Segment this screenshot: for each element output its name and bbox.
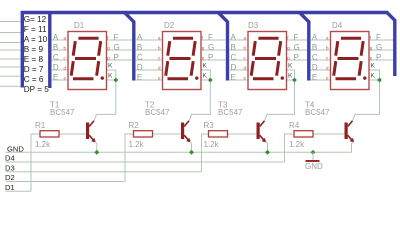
bus: top horizontal segment net A-G,DP: [22, 13, 388, 88]
svg-text:K: K: [371, 72, 376, 79]
wire net G from MCU: [0, 21, 21, 23]
segment g of D2: [170, 57, 191, 60]
decimal point of D2: [195, 76, 198, 79]
ground symbol bar: [306, 160, 320, 162]
transistor T2 emitter lead: [184, 135, 189, 141]
wire net D3 rail: [6, 171, 202, 173]
wire D1 pin K1 to cathode node: [107, 70, 116, 80]
svg-text:1.2k: 1.2k: [129, 140, 145, 149]
wire net P from D2 pin p: [201, 59, 226, 61]
transistor stage T1: [31, 78, 118, 192]
wire D3 pin K2 to cathode node: [287, 79, 295, 81]
junction cathode node: [113, 78, 118, 83]
segment b of D1: [99, 41, 101, 56]
bus vertical drop at x=134: [125, 13, 134, 81]
svg-text:D: D: [312, 63, 318, 72]
transistor T2 collector lead: [184, 121, 189, 127]
wire net F from D4 pin f: [369, 39, 393, 41]
svg-text:1.2k: 1.2k: [204, 140, 220, 149]
segment d of D1: [73, 77, 94, 80]
wire net P from D1 pin p: [107, 59, 133, 61]
wire net G from D3 pin g: [287, 49, 308, 51]
wire net DP from MCU: [0, 85, 21, 87]
wire R3 to T3 base: [228, 133, 257, 135]
svg-text:D3: D3: [248, 21, 259, 30]
wire D4 pin K1 to cathode node: [369, 70, 380, 80]
segment f of D3: [253, 41, 255, 56]
svg-text:B = 9: B = 9: [24, 45, 44, 54]
svg-text:G: G: [376, 43, 382, 52]
wire net P from D4 pin p: [369, 59, 393, 61]
wire net G from D1 pin g: [107, 49, 133, 51]
svg-text:G: G: [114, 43, 120, 52]
wire T2 emitter to GND rail: [190, 142, 192, 153]
svg-text:A: A: [53, 33, 59, 42]
svg-text:D3: D3: [5, 163, 15, 172]
wire net E to D2 pin e: [136, 79, 163, 81]
transistor T4 collector lead: [348, 121, 353, 127]
svg-text:BC547: BC547: [50, 108, 75, 117]
svg-text:BC547: BC547: [218, 108, 243, 117]
svg-text:C: C: [53, 53, 59, 62]
svg-text:P: P: [208, 53, 213, 62]
svg-text:B: B: [137, 43, 142, 52]
svg-text:K: K: [108, 62, 113, 69]
svg-text:C: C: [231, 53, 237, 62]
wire net to R1 from rail: [31, 134, 40, 191]
wire net E from MCU: [0, 58, 21, 60]
transistor T2 emitter arrow: [186, 138, 191, 143]
wire D3 pin K1 to cathode node: [287, 70, 295, 80]
wire T4 emitter to GND rail: [352, 142, 354, 153]
segment c of D1: [97, 61, 99, 76]
svg-text:F: F: [376, 33, 381, 42]
transistor T4 emitter arrow: [350, 138, 355, 143]
ground symbol stub wire: [312, 152, 314, 160]
resistor R4 body: [294, 131, 313, 137]
svg-text:E = 8: E = 8: [24, 55, 44, 64]
7-segment display D1: [52, 21, 132, 90]
transistor stage T2: [125, 78, 213, 182]
transistor T1 collector lead: [89, 121, 94, 127]
wire net F from D3 pin f: [287, 39, 308, 41]
wire net F from D2 pin f: [201, 39, 226, 41]
svg-text:D: D: [53, 63, 59, 72]
wire net P from D3 pin p: [287, 59, 308, 61]
transistor T4 base bar: [345, 123, 348, 140]
wire R2 to T2 base: [153, 133, 182, 135]
svg-text:GND: GND: [7, 145, 24, 154]
wire net to R4 from rail: [285, 134, 295, 162]
bus right end drop: [387, 13, 395, 77]
svg-text:B: B: [231, 43, 236, 52]
junction cathode node: [292, 78, 297, 83]
wire T2 collector to display cathode: [189, 80, 210, 121]
segment e of D2: [166, 61, 168, 76]
wire net C to D4 pin c: [311, 59, 331, 61]
svg-text:K: K: [288, 62, 293, 69]
svg-text:K: K: [203, 72, 208, 79]
wire net D2 rail: [6, 181, 126, 183]
wire net D to D2 pin d: [136, 69, 163, 71]
svg-text:K: K: [108, 72, 113, 79]
segment c of D2: [191, 61, 193, 76]
svg-text:K: K: [288, 72, 293, 79]
junction emitter-GND: [94, 150, 99, 155]
svg-text:R4: R4: [289, 121, 300, 130]
segment g of D4: [338, 57, 359, 60]
svg-text:R3: R3: [204, 121, 215, 130]
wire net F from D1 pin f: [107, 39, 133, 41]
wire net A to D3 pin a: [229, 39, 248, 41]
segment b of D4: [361, 41, 363, 56]
wire net B to D3 pin b: [229, 49, 248, 51]
svg-text:A: A: [312, 33, 318, 42]
transistor T4 emitter lead: [348, 135, 353, 141]
svg-text:C: C: [137, 53, 143, 62]
svg-text:E: E: [231, 73, 236, 82]
wire net D to D4 pin d: [311, 69, 331, 71]
segment f of D2: [168, 41, 170, 56]
svg-text:E: E: [312, 73, 317, 82]
transistor T1 emitter arrow: [91, 138, 96, 143]
wire T4 collector to display cathode: [353, 80, 380, 121]
wire D2 pin K2 to cathode node: [201, 79, 210, 81]
junction emitter-GND: [265, 150, 270, 155]
wire D2 pin K1 to cathode node: [201, 70, 210, 80]
bus vertical drop at x=228: [218, 13, 227, 81]
transistor T3 collector lead: [260, 121, 265, 127]
display D2 body outline: [163, 32, 202, 90]
decimal point of D4: [363, 76, 366, 79]
7-segment display D2: [136, 21, 226, 90]
7-segment display D4: [311, 21, 393, 90]
svg-text:D = 7: D = 7: [24, 65, 44, 74]
transistor T2 base bar: [181, 123, 184, 140]
transistor T3 emitter lead: [260, 135, 265, 141]
svg-text:D1: D1: [5, 183, 15, 192]
svg-text:F = 11: F = 11: [24, 25, 47, 34]
svg-text:A: A: [137, 33, 143, 42]
svg-text:1.2k: 1.2k: [35, 140, 51, 149]
wire T1 collector to display cathode: [94, 80, 116, 121]
segment c of D3: [277, 61, 279, 76]
junction GND rail to ground symbol: [311, 150, 316, 155]
transistor T1 emitter lead: [89, 135, 94, 141]
svg-text:F: F: [208, 33, 213, 42]
svg-text:E: E: [137, 73, 142, 82]
svg-text:1.2k: 1.2k: [289, 140, 305, 149]
segment g of D1: [75, 57, 96, 60]
wire net GND rail: [6, 151, 352, 153]
svg-text:C: C: [312, 53, 318, 62]
wire T3 emitter to GND rail: [266, 142, 268, 153]
wire net G from D2 pin g: [201, 49, 226, 51]
wire net to R3 from rail: [202, 134, 209, 172]
transistor stage T3: [202, 78, 297, 172]
wire net C to D1 pin c: [52, 59, 68, 61]
segment d of D4: [336, 77, 357, 80]
wire net D to D3 pin d: [229, 69, 248, 71]
wire net A to D2 pin a: [136, 39, 163, 41]
resistor R1 body: [40, 131, 59, 137]
wire net F from MCU: [0, 32, 21, 34]
svg-text:A = 10: A = 10: [24, 35, 48, 44]
resistor R2 body: [134, 131, 153, 137]
segment a of D2: [173, 37, 193, 40]
display D4 body outline: [331, 32, 370, 90]
segment e of D1: [71, 61, 73, 76]
wire net C to D3 pin c: [229, 59, 248, 61]
svg-text:K: K: [203, 62, 208, 69]
svg-text:G: G: [294, 43, 300, 52]
svg-text:R2: R2: [129, 121, 140, 130]
segment e of D3: [251, 61, 253, 76]
svg-text:BC547: BC547: [305, 108, 330, 117]
wire net A from MCU: [0, 42, 21, 44]
svg-text:A: A: [231, 33, 237, 42]
svg-text:D4: D4: [332, 21, 343, 30]
display D3 body outline: [248, 32, 287, 90]
segment b of D2: [193, 41, 195, 56]
segment d of D3: [253, 77, 274, 80]
wire net D to D1 pin d: [52, 69, 68, 71]
wire net E to D4 pin e: [311, 79, 331, 81]
transistor stage T4: [285, 78, 382, 162]
wire net B to D1 pin b: [52, 49, 68, 51]
svg-text:B: B: [312, 43, 317, 52]
wire net E to D1 pin e: [52, 79, 68, 81]
wire R4 to T4 base: [313, 133, 345, 135]
wire net G from D4 pin g: [369, 49, 393, 51]
segment a of D1: [78, 37, 98, 40]
wire net A to D4 pin a: [311, 39, 331, 41]
wire net B to D4 pin b: [311, 49, 331, 51]
decimal point of D3: [281, 76, 284, 79]
svg-text:D: D: [137, 63, 143, 72]
bus vertical drop at x=309: [300, 13, 309, 81]
svg-text:P: P: [294, 53, 299, 62]
junction cathode node: [377, 78, 382, 83]
wire net B from MCU: [0, 49, 21, 51]
segment e of D4: [334, 61, 336, 76]
svg-text:P: P: [114, 53, 119, 62]
segment f of D1: [73, 41, 75, 56]
wire D1 pin K2 to cathode node: [107, 79, 116, 81]
svg-text:G= 12: G= 12: [24, 15, 47, 24]
junction emitter-GND: [189, 150, 194, 155]
segment f of D4: [336, 41, 338, 56]
segment a of D3: [258, 37, 278, 40]
svg-text:D2: D2: [5, 173, 15, 182]
decimal point of D1: [101, 76, 104, 79]
wire net D4 rail: [6, 161, 285, 163]
wire net B to D2 pin b: [136, 49, 163, 51]
wire D4 pin K2 to cathode node: [369, 79, 380, 81]
svg-text:P: P: [376, 53, 381, 62]
segment b of D3: [279, 41, 281, 56]
svg-text:F: F: [294, 33, 299, 42]
wire T1 emitter to GND rail: [95, 142, 97, 153]
segment c of D4: [359, 61, 361, 76]
segment a of D4: [341, 37, 361, 40]
wire net C to D2 pin c: [136, 59, 163, 61]
svg-text:R1: R1: [35, 121, 46, 130]
svg-text:G: G: [208, 43, 214, 52]
transistor T3 emitter arrow: [262, 138, 267, 143]
junction cathode node: [208, 78, 213, 83]
svg-text:B: B: [53, 43, 58, 52]
svg-text:D1: D1: [74, 21, 85, 30]
wire net D from MCU: [0, 66, 21, 68]
resistor R3 body: [209, 131, 228, 137]
svg-text:D2: D2: [164, 21, 175, 30]
wire net D1 rail: [6, 190, 32, 192]
svg-text:E: E: [53, 73, 58, 82]
wire net to R2 from rail: [125, 134, 134, 182]
svg-text:C = 6: C = 6: [24, 75, 44, 84]
wire net E to D3 pin e: [229, 79, 248, 81]
svg-text:GND: GND: [305, 162, 323, 171]
wire R1 to T1 base: [59, 133, 86, 135]
svg-text:D: D: [231, 63, 237, 72]
svg-text:F: F: [114, 33, 119, 42]
transistor T3 base bar: [257, 123, 260, 140]
transistor T1 base bar: [86, 123, 89, 140]
wire net A to D1 pin a: [52, 39, 68, 41]
wire T3 collector to display cathode: [265, 80, 295, 121]
bus vertical segment left (pin side): [48, 11, 51, 88]
svg-text:BC547: BC547: [145, 108, 170, 117]
7-segment display D3: [229, 21, 307, 90]
display D1 body outline: [68, 32, 107, 90]
segment g of D3: [255, 57, 276, 60]
svg-text:D4: D4: [5, 154, 15, 163]
wire net C from MCU: [0, 75, 21, 77]
svg-text:DP = 5: DP = 5: [24, 85, 50, 94]
svg-text:K: K: [371, 62, 376, 69]
segment d of D2: [168, 77, 189, 80]
